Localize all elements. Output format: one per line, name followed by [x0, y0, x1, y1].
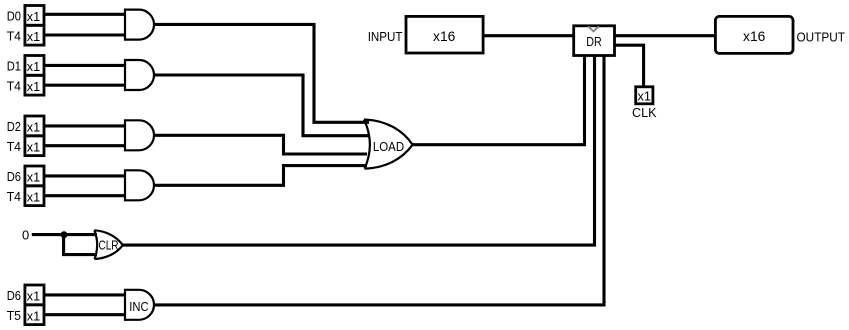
- svg-text:x16: x16: [743, 28, 766, 44]
- svg-text:x1: x1: [27, 79, 40, 94]
- svg-text:x1: x1: [27, 9, 40, 24]
- svg-text:CLK: CLK: [632, 105, 657, 120]
- svg-text:x16: x16: [433, 28, 456, 44]
- svg-text:LOAD: LOAD: [373, 139, 404, 154]
- svg-text:OUTPUT: OUTPUT: [797, 29, 846, 44]
- svg-text:INC: INC: [129, 299, 148, 314]
- svg-text:x1: x1: [27, 189, 40, 204]
- svg-text:x1: x1: [27, 59, 40, 74]
- svg-text:D0: D0: [7, 9, 21, 24]
- svg-text:x1: x1: [27, 289, 40, 304]
- svg-text:CLR: CLR: [99, 238, 119, 253]
- svg-text:x1: x1: [27, 308, 40, 323]
- svg-text:0: 0: [22, 228, 29, 243]
- svg-text:x1: x1: [27, 29, 40, 44]
- svg-text:T4: T4: [7, 28, 21, 43]
- svg-text:D2: D2: [7, 119, 21, 134]
- svg-text:T5: T5: [7, 308, 21, 323]
- svg-text:x1: x1: [27, 120, 40, 135]
- svg-text:INPUT: INPUT: [368, 29, 403, 44]
- svg-text:D6: D6: [7, 288, 21, 303]
- svg-text:D1: D1: [7, 59, 21, 74]
- svg-text:x1: x1: [27, 170, 40, 185]
- svg-text:x1: x1: [27, 139, 40, 154]
- svg-text:D6: D6: [7, 169, 21, 184]
- svg-text:DR: DR: [586, 34, 602, 49]
- svg-text:x1: x1: [638, 89, 651, 104]
- svg-text:T4: T4: [7, 189, 21, 204]
- svg-text:T4: T4: [7, 139, 21, 154]
- svg-text:T4: T4: [7, 78, 21, 93]
